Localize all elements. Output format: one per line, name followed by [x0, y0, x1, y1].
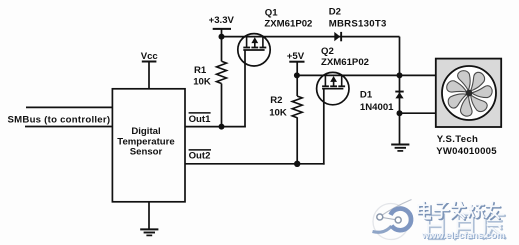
svg-text:Q2: Q2	[321, 46, 334, 57]
svg-text:www.elecfans.com: www.elecfans.com	[421, 230, 505, 240]
svg-text:Out1: Out1	[189, 114, 212, 125]
svg-text:YW04010005: YW04010005	[436, 146, 497, 157]
svg-text:+5V: +5V	[287, 51, 305, 62]
svg-text:MBRS130T3: MBRS130T3	[329, 19, 387, 30]
svg-text:+3.3V: +3.3V	[209, 15, 235, 26]
svg-text:Y.S.Tech: Y.S.Tech	[437, 134, 478, 145]
svg-text:Vcc: Vcc	[141, 51, 159, 62]
svg-text:SMBus (to controller): SMBus (to controller)	[8, 114, 111, 125]
svg-text:10K: 10K	[193, 76, 211, 87]
svg-text:Sensor: Sensor	[130, 146, 163, 157]
svg-text:10K: 10K	[269, 108, 287, 119]
svg-text:ZXM61P02: ZXM61P02	[264, 19, 312, 30]
svg-text:Out2: Out2	[189, 150, 211, 161]
svg-text:D1: D1	[360, 90, 373, 101]
svg-text:Digital: Digital	[131, 126, 160, 137]
svg-text:Q1: Q1	[265, 8, 278, 19]
svg-text:R1: R1	[194, 65, 207, 76]
svg-text:1N4001: 1N4001	[360, 102, 394, 113]
svg-text:R2: R2	[270, 95, 282, 106]
svg-text:ZXM61P02: ZXM61P02	[321, 57, 369, 68]
svg-text:D2: D2	[329, 7, 341, 18]
